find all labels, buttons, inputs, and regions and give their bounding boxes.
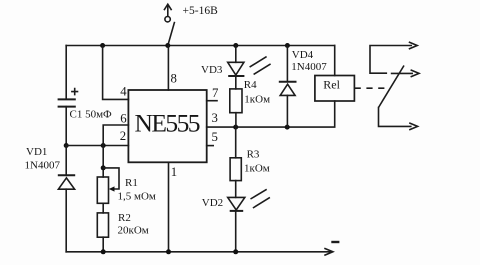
node top rail VD4 junction (285, 43, 290, 48)
wire junction to R1 (102, 146, 104, 178)
switch blade SA1 (168, 22, 174, 44)
svg-text:6: 6 (120, 112, 127, 126)
power terminal arrow (164, 4, 172, 16)
wire R1 to R2 (102, 203, 104, 213)
wire pin8 (167, 46, 169, 91)
wire top rail (66, 45, 335, 47)
svg-text:1N4007: 1N4007 (291, 61, 327, 73)
node pin3 R3 junction (233, 125, 238, 130)
svg-text:R3: R3 (247, 149, 260, 161)
svg-text:VD3: VD3 (201, 64, 223, 76)
node bottom rail VD2 junction (233, 249, 238, 254)
capacitor C1 (58, 88, 79, 107)
wire R4 to pin3 row (235, 113, 237, 127)
wire pin3 row (207, 101, 335, 127)
label minus terminal (331, 241, 339, 243)
svg-text:1кОм: 1кОм (244, 162, 270, 174)
resistor R3 (230, 158, 241, 181)
wire node to VD1 (65, 146, 67, 176)
node top rail power junction (165, 43, 170, 48)
wire VD4 to pin3 row (286, 95, 288, 127)
svg-text:VD4: VD4 (292, 49, 314, 61)
wire pin1 (168, 162, 170, 252)
node top rail VD3 junction (233, 43, 238, 48)
resistor R1 (97, 177, 108, 203)
wire pin2 row (66, 145, 128, 147)
contact top throw wire (370, 46, 411, 74)
svg-text:1N4007: 1N4007 (25, 160, 61, 172)
pin 5 stub (207, 145, 214, 147)
wire R3 to VD2 (235, 181, 237, 198)
node pin3 VD4 junction (285, 125, 290, 130)
bottom rail arrowhead (324, 248, 333, 255)
svg-text:Rel: Rel (323, 77, 340, 91)
svg-text:2: 2 (120, 129, 126, 143)
wire pin6 (103, 125, 128, 146)
wire top rail to Rel (334, 46, 336, 76)
relay Rel box (315, 76, 355, 102)
svg-text:R4: R4 (244, 79, 257, 91)
wire pin4 (103, 46, 129, 100)
pin 7 stub (207, 100, 217, 102)
contact common arrowhead (409, 123, 417, 130)
contact blade (379, 66, 405, 108)
svg-text:VD1: VD1 (26, 146, 47, 158)
node pin2/6 junction (101, 143, 106, 148)
svg-text:R1: R1 (125, 177, 138, 189)
wire VD2 to bottom rail (235, 211, 237, 252)
resistor R4 (230, 89, 242, 113)
diode VD4 (279, 82, 297, 96)
power terminal circle (165, 17, 170, 22)
svg-text:1кОм: 1кОм (244, 93, 270, 105)
wire bottom rail (66, 251, 331, 253)
svg-text:7: 7 (212, 86, 219, 100)
VD3 light arrows (250, 57, 271, 75)
node bottom rail R2 junction (101, 249, 106, 254)
wire VD3 to R4 (235, 76, 237, 89)
node top rail pin4 junction (100, 43, 105, 48)
diode VD1 (58, 175, 75, 189)
wire R1 wiper (103, 168, 119, 192)
op-amp U1 NE555 box (128, 90, 206, 162)
wire C1 to node (65, 107, 67, 146)
svg-text:+5-16В: +5-16В (183, 5, 219, 17)
contact top arrowhead (409, 42, 417, 49)
svg-text:R2: R2 (118, 212, 131, 224)
svg-text:20кОм: 20кОм (118, 224, 149, 236)
contact common wire (379, 108, 411, 127)
svg-text:VD2: VD2 (202, 197, 223, 209)
svg-text:4: 4 (120, 84, 127, 98)
svg-text:5: 5 (212, 130, 218, 144)
wire VD3 drop (235, 46, 237, 63)
node VD1 top junction (64, 143, 69, 148)
LED VD2 (228, 197, 245, 211)
wire VD1 to bottom rail (65, 189, 67, 252)
svg-text:8: 8 (171, 72, 177, 86)
svg-text:C1 50мФ: C1 50мФ (70, 109, 113, 121)
wire left drop to C1 (65, 46, 67, 100)
contact middle arrowhead (411, 70, 419, 77)
wire R2 to bottom rail (102, 237, 104, 252)
svg-text:1,5 мОм: 1,5 мОм (118, 191, 156, 203)
node R1 wiper junction (101, 165, 106, 170)
LED VD3 (228, 62, 245, 76)
svg-text:1: 1 (171, 165, 177, 179)
svg-text:NE555: NE555 (135, 108, 201, 137)
node bottom rail pin1 junction (166, 249, 171, 254)
VD2 light arrows (251, 189, 270, 208)
wire VD4 drop (286, 46, 288, 82)
wire R3 drop (235, 127, 237, 158)
svg-text:3: 3 (212, 111, 218, 125)
dashed link Rel to contact (355, 87, 390, 89)
contact middle throw wire (392, 72, 413, 74)
resistor R2 (97, 213, 108, 237)
